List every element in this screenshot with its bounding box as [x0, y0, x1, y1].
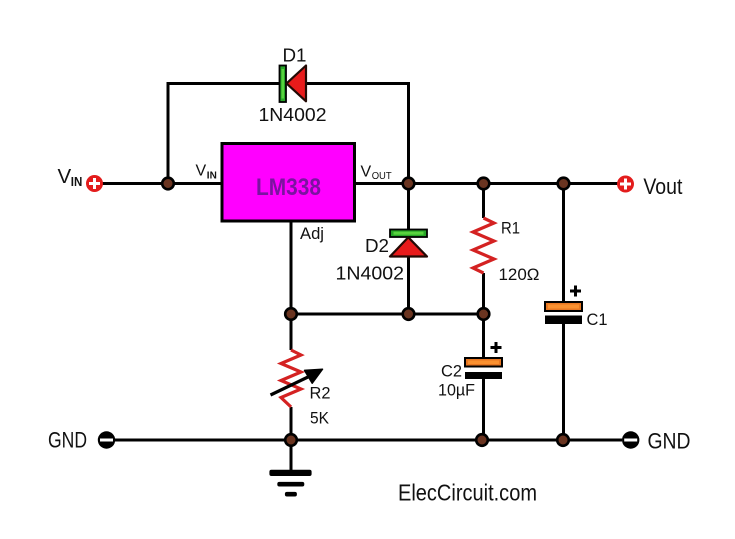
- wire GND rail: [115, 439, 622, 442]
- svg-text:V: V: [58, 165, 72, 188]
- svg-text:C1: C1: [587, 310, 608, 329]
- wire Vout rail down to C1: [562, 184, 565, 305]
- wire top loop right (D1 cathode across and down to Vout junction): [306, 84, 409, 184]
- svg-text:OUT: OUT: [372, 170, 393, 182]
- node C1 top junction: [558, 178, 570, 190]
- capacitor C2 positive plate: [465, 358, 502, 367]
- svg-text:ElecCircuit.com: ElecCircuit.com: [398, 480, 537, 506]
- svg-text:GND: GND: [648, 429, 691, 454]
- node D2 bottom junction: [403, 308, 415, 320]
- terminal Vin (red plus): [86, 175, 103, 192]
- svg-text:10µF: 10µF: [438, 381, 475, 400]
- wire R1 bottom lead to mid rail: [482, 273, 485, 314]
- node R1 bottom junction: [478, 308, 490, 320]
- R2 wiper arrow: [271, 369, 323, 395]
- label VIN terminal: [58, 165, 83, 189]
- wire ground stub: [290, 440, 293, 471]
- svg-text:V: V: [196, 163, 207, 180]
- terminal GND left (black minus): [98, 431, 115, 448]
- capacitor C1 negative plate: [545, 316, 582, 325]
- wire top loop left (Vin junction up and across to D1 anode): [168, 84, 280, 184]
- node R1 top junction: [478, 178, 490, 190]
- node Vout/D2 junction: [403, 178, 415, 190]
- resistor R1: [473, 218, 494, 273]
- svg-text:D1: D1: [283, 45, 307, 66]
- svg-text:IN: IN: [207, 170, 217, 182]
- svg-text:GND: GND: [48, 428, 87, 453]
- wire mid rail (Adj node across to R1 node): [291, 313, 484, 316]
- svg-text:C2: C2: [441, 361, 462, 380]
- svg-text:1N4002: 1N4002: [336, 262, 405, 283]
- C2 plus sign: [491, 342, 502, 353]
- svg-text:1N4002: 1N4002: [259, 104, 327, 125]
- svg-text:Adj: Adj: [300, 224, 324, 243]
- wire Vin terminal to LM338 input: [103, 182, 223, 185]
- wire R2 bottom lead to GND rail: [290, 407, 293, 440]
- ground: [269, 470, 311, 497]
- pin label VOUT (LM338 output pin): [361, 163, 393, 182]
- regulator IC U1 LM338: [222, 144, 355, 222]
- svg-text:R1: R1: [501, 219, 520, 238]
- wire mid rail to C2 top: [482, 314, 485, 360]
- svg-text:D2: D2: [365, 235, 389, 256]
- capacitor C1 positive plate: [545, 302, 582, 311]
- terminal GND right (black minus): [622, 431, 639, 448]
- svg-text:IN: IN: [71, 174, 83, 189]
- node C2 bottom junction: [476, 434, 488, 446]
- diode D1 cathode bar: [280, 66, 287, 103]
- wire Vout junction down to D2: [407, 184, 410, 232]
- svg-text:Vout: Vout: [643, 174, 683, 199]
- svg-text:R2: R2: [310, 384, 331, 403]
- pin label VIN (LM338 input pin): [196, 163, 217, 182]
- wire LM338 output to Vout terminal: [355, 182, 618, 185]
- resistor R2 (variable): [281, 350, 301, 407]
- C1 plus sign: [570, 286, 581, 297]
- svg-text:5K: 5K: [310, 409, 330, 428]
- diode D1 triangle: [287, 66, 307, 102]
- node C1 bottom junction: [557, 434, 569, 446]
- wire Adj pin down: [290, 221, 293, 314]
- terminal Vout (red plus): [617, 176, 634, 193]
- node Vin junction: [162, 178, 174, 190]
- wire C1 bottom to GND rail: [562, 322, 565, 440]
- capacitor C2 negative plate: [465, 372, 502, 379]
- wire below D2 to mid rail: [407, 255, 410, 314]
- diode D2 cathode bar: [390, 230, 427, 238]
- svg-text:120Ω: 120Ω: [499, 265, 540, 284]
- svg-text:LM338: LM338: [256, 174, 321, 201]
- wire C2 bottom to GND rail: [482, 378, 485, 440]
- diode D2 triangle: [390, 237, 427, 256]
- wire R2 top lead: [290, 314, 293, 350]
- wire R1 top lead: [482, 184, 485, 219]
- node Adj junction: [285, 308, 297, 320]
- svg-text:V: V: [361, 163, 372, 180]
- node R2 bottom junction: [285, 434, 297, 446]
